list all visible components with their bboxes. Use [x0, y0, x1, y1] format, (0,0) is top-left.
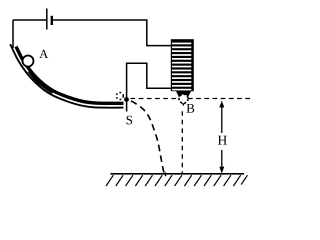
- ramp under rail: [10, 44, 123, 107]
- label A: [39, 50, 48, 58]
- wire top-left to battery: [13, 19, 46, 21]
- junction dot at S: [124, 97, 129, 102]
- dashed launch height line: [131, 98, 251, 100]
- battery short plate: [51, 16, 53, 25]
- label S: [127, 116, 133, 125]
- ground hatching: [106, 175, 248, 186]
- wire left drop to ramp: [12, 20, 14, 48]
- ground line: [111, 173, 245, 175]
- ball at S dotted: [116, 93, 123, 100]
- ramp band filler mid-section: [29, 71, 53, 92]
- landing tick: [165, 172, 167, 176]
- wire battery to coil top: [53, 20, 171, 46]
- ball B: [179, 94, 188, 103]
- battery long plate: [46, 9, 48, 30]
- electromagnet coil body: [171, 39, 194, 91]
- label H: [218, 136, 227, 145]
- H upper arrow: [221, 104, 223, 134]
- H lower arrow: [221, 150, 223, 171]
- label B: [187, 104, 195, 113]
- trajectory dashed parabola: [128, 100, 165, 176]
- dashed drop line below B: [181, 111, 183, 174]
- ramp surface band: [16, 47, 124, 104]
- ball A: [23, 56, 34, 67]
- pole piece below coil: [176, 91, 191, 106]
- coil white stripes: [172, 43, 191, 91]
- wire from S junction up and over to coil bottom: [127, 63, 171, 111]
